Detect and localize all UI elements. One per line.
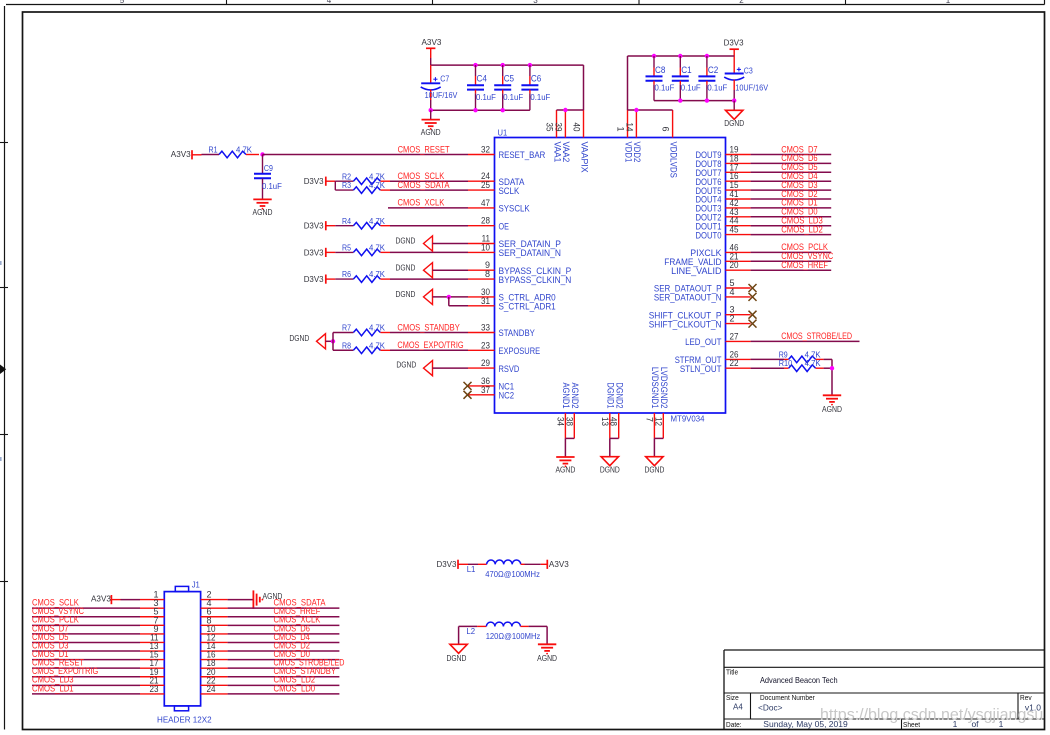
- wire J1 pin 4 CMOS_SDATA: [228, 607, 340, 609]
- ground DGND (at L2): [446, 644, 467, 663]
- svg-text:38: 38: [564, 417, 574, 426]
- capacitor C6 0.1uF: [521, 65, 550, 110]
- wire pin 26 to R9: [751, 358, 784, 360]
- svg-text:CMOS_XCLK: CMOS_XCLK: [398, 198, 445, 208]
- svg-text:SER_DATAIN_N: SER_DATAIN_N: [499, 248, 561, 258]
- svg-text:4.7K: 4.7K: [369, 172, 386, 181]
- svg-text:1: 1: [616, 126, 626, 131]
- ground AGND (at J1 pin 2): [253, 590, 282, 608]
- resistor R8 4.7K: [342, 341, 390, 353]
- svg-text:10UF/16V: 10UF/16V: [425, 91, 459, 100]
- U1 top power pins VAA1 VAA2 VAAPIX VDD1 VDD2 VDDLVDS: [545, 110, 679, 178]
- U1 right pins with numbers: [649, 145, 751, 374]
- svg-text:6: 6: [661, 126, 671, 131]
- svg-text:33: 33: [481, 323, 490, 333]
- svg-text:DGND2: DGND2: [615, 383, 625, 409]
- power A3V3 (top): [422, 37, 442, 65]
- svg-text:47: 47: [481, 198, 490, 208]
- no-connect pin 2: [749, 320, 757, 328]
- wire J1 pin 8 CMOS_XCLK: [228, 624, 340, 626]
- svg-text:MT9V034: MT9V034: [671, 413, 705, 423]
- svg-text:RESET_BAR: RESET_BAR: [499, 150, 546, 160]
- wire AGND rail (left decoupling): [431, 109, 530, 111]
- capacitor C5 0.1uF: [494, 65, 523, 110]
- resistor R4 4.7K: [342, 217, 390, 229]
- svg-text:VDD1: VDD1: [623, 142, 633, 163]
- wire R6 to pin 8: [390, 278, 468, 280]
- svg-text:C8: C8: [655, 65, 665, 75]
- node R9-R10 junction: [830, 366, 834, 370]
- op IC U1 MT9V034 body: [495, 127, 726, 423]
- svg-text:A3V3: A3V3: [422, 37, 442, 47]
- svg-text:8: 8: [485, 269, 490, 279]
- wire DGND to R7 R8: [333, 333, 353, 351]
- svg-text:45: 45: [730, 225, 739, 235]
- no-connect NC1 pin 36: [464, 382, 472, 390]
- capacitor C4 0.1uF: [467, 65, 496, 110]
- wire CMOS_D6: [751, 162, 832, 164]
- svg-text:13: 13: [600, 417, 610, 426]
- wire CMOS_D1: [751, 207, 832, 209]
- svg-text:R10: R10: [779, 359, 793, 368]
- U1 left pins with numbers: [468, 145, 571, 401]
- wire VDD pin tops: [628, 109, 673, 111]
- ground DGND (U1 bottom digital): [600, 457, 620, 475]
- wire LVDSGND1 LVDSGND2 to ground: [654, 438, 663, 456]
- svg-text:U1: U1: [498, 127, 508, 137]
- svg-text:0.1uF: 0.1uF: [681, 84, 701, 93]
- svg-text:SYSCLK: SYSCLK: [499, 204, 530, 214]
- svg-text:R3: R3: [342, 181, 351, 190]
- svg-text:L2: L2: [466, 627, 475, 636]
- svg-text:DGND: DGND: [724, 118, 744, 128]
- svg-text:Rev: Rev: [1020, 693, 1032, 702]
- node DGND rail junctions: [678, 98, 736, 102]
- svg-text:4.7K: 4.7K: [805, 359, 822, 368]
- svg-text:0.1uF: 0.1uF: [530, 93, 550, 102]
- connector J1 HEADER 12X2 body: [157, 580, 212, 724]
- svg-text:R4: R4: [342, 217, 352, 226]
- svg-text:HEADER 12X2: HEADER 12X2: [157, 714, 212, 724]
- wire J1 pin 2 to AGND: [228, 599, 254, 601]
- node VDD junction: [634, 108, 638, 112]
- svg-text:D3V3: D3V3: [437, 559, 457, 569]
- no-connect pin 5: [749, 284, 757, 292]
- wire J1 pin 24 CMOS_LD0: [228, 693, 340, 695]
- svg-text:CMOS_LD1: CMOS_LD1: [32, 683, 74, 693]
- ground AGND (at R9 R10): [822, 395, 842, 414]
- node S_CTRL junction: [447, 295, 451, 299]
- ground AGND (U1 bottom): [555, 457, 575, 475]
- wire R4 to pin 28: [390, 225, 468, 227]
- svg-text:1: 1: [946, 0, 951, 5]
- resistor R5 4.7K: [342, 244, 390, 256]
- wire J1 pin 16 CMOS_D0: [228, 659, 340, 661]
- svg-text:https://blog.csdn.net/ysgjiang: https://blog.csdn.net/ysgjiangsu: [820, 707, 1043, 724]
- wire CMOS_D2: [751, 198, 832, 200]
- svg-text:R6: R6: [342, 270, 351, 279]
- svg-text:48: 48: [609, 417, 619, 426]
- wire DGND to pin 30: [433, 296, 469, 298]
- svg-text:40: 40: [572, 123, 582, 132]
- svg-text:4.7K: 4.7K: [369, 244, 386, 253]
- wire L2 to AGND: [529, 626, 548, 644]
- wire J1 pin 11 CMOS_D5: [32, 641, 140, 643]
- svg-text:CMOS_SDATA: CMOS_SDATA: [398, 180, 450, 190]
- svg-text:C5: C5: [504, 74, 514, 84]
- wire AGND1 AGND2 to ground: [565, 438, 574, 457]
- svg-text:J1: J1: [192, 580, 200, 589]
- svg-text:L1: L1: [467, 565, 476, 574]
- wire J1 pin 7 CMOS_PCLK: [32, 624, 140, 626]
- svg-text:A3V3: A3V3: [91, 594, 111, 604]
- svg-text:Size: Size: [726, 693, 739, 702]
- svg-text:BYPASS_CLKIN_N: BYPASS_CLKIN_N: [499, 275, 572, 285]
- wire J1 pin 6 CMOS_HREF: [228, 616, 340, 618]
- wire DGND to pin 9: [433, 269, 469, 271]
- svg-text:4.7K: 4.7K: [369, 270, 386, 279]
- svg-text:VAAPIX: VAAPIX: [579, 142, 589, 173]
- svg-text:23: 23: [150, 684, 159, 694]
- wire CMOS_HREF: [751, 269, 832, 271]
- J1 pin stubs with numbers: [140, 590, 228, 694]
- wire CMOS_EXPO/TRIG to pin 23: [390, 349, 468, 351]
- power D3V3 (at R6): [304, 274, 354, 284]
- svg-text:VDDLVDS: VDDLVDS: [668, 142, 678, 178]
- svg-text:STLN_OUT: STLN_OUT: [680, 364, 722, 374]
- resistor R9 4.7K: [779, 350, 824, 362]
- svg-text:12: 12: [653, 417, 663, 426]
- svg-text:DGND: DGND: [396, 236, 416, 246]
- capacitor C8 0.1uF: [646, 56, 675, 101]
- svg-text:STANDBY: STANDBY: [499, 328, 535, 338]
- no-connect pin 4: [749, 293, 757, 301]
- svg-text:CMOS_STROBE/LED: CMOS_STROBE/LED: [781, 331, 852, 341]
- svg-text:DGND: DGND: [396, 262, 416, 272]
- ground AGND (under C9): [253, 199, 273, 217]
- svg-text:R9: R9: [779, 350, 788, 359]
- node R1-C9 junction: [260, 152, 264, 156]
- wire DGND to pin 11: [433, 243, 469, 245]
- svg-text:C2: C2: [708, 65, 718, 75]
- svg-text:VAA2: VAA2: [561, 142, 571, 163]
- svg-text:AGND2: AGND2: [570, 383, 580, 409]
- svg-text:AGND1: AGND1: [561, 383, 571, 409]
- wire CMOS_STROBE/LED: [751, 340, 860, 342]
- svg-text:DGND: DGND: [446, 653, 466, 663]
- ground DGND (U1 bottom LVDS): [644, 457, 664, 475]
- svg-text:4: 4: [327, 0, 332, 5]
- power D3V3 (at R4): [304, 221, 354, 231]
- wire DGND to pin 29: [433, 367, 469, 369]
- wire CMOS_D4: [751, 180, 832, 182]
- svg-text:AGND: AGND: [537, 653, 557, 663]
- wire J1 pin 10 CMOS_D6: [228, 633, 340, 635]
- svg-text:4.7K: 4.7K: [369, 341, 386, 350]
- wire CMOS_D0: [751, 216, 832, 218]
- svg-text:5: 5: [120, 0, 125, 5]
- node AGND rail junctions: [429, 108, 505, 112]
- svg-text:C1: C1: [681, 65, 691, 75]
- ground AGND (under C7): [421, 110, 441, 137]
- wire CMOS_PCLK: [751, 251, 832, 253]
- power D3V3 (at L1): [437, 559, 469, 569]
- svg-text:C3: C3: [744, 66, 753, 75]
- svg-text:34: 34: [555, 417, 565, 426]
- wire CMOS_D3: [751, 189, 832, 191]
- node A3V3 rail junctions: [473, 63, 532, 67]
- svg-text:DGND: DGND: [396, 359, 416, 369]
- wire A3V3 rail: [431, 65, 584, 110]
- svg-text:CMOS_LD2: CMOS_LD2: [781, 224, 823, 234]
- svg-text:29: 29: [481, 358, 490, 368]
- svg-text:Advanced Beacon Tech: Advanced Beacon Tech: [760, 675, 838, 685]
- svg-text:C7: C7: [440, 74, 449, 83]
- wire CMOS_D5: [751, 171, 832, 173]
- wire CMOS_SDATA to pin 25: [390, 189, 468, 191]
- wire CMOS_VSYNC: [751, 260, 832, 262]
- wire J1 pin 20 CMOS_STANDBY: [228, 676, 340, 678]
- svg-text:NC2: NC2: [499, 391, 515, 401]
- wire pin 22 to R10: [751, 367, 784, 369]
- ground AGND (at L2): [537, 644, 557, 663]
- capacitor C3 10UF/16V: [724, 66, 769, 100]
- svg-text:Date:: Date:: [726, 720, 742, 729]
- svg-text:OE: OE: [499, 221, 509, 231]
- svg-text:22: 22: [730, 358, 739, 368]
- svg-text:R7: R7: [342, 324, 351, 333]
- svg-text:SER_DATAOUT_N: SER_DATAOUT_N: [654, 293, 722, 303]
- svg-text:R2: R2: [342, 172, 351, 181]
- svg-text:A3V3: A3V3: [549, 559, 569, 569]
- resistor R10 4.7K: [779, 359, 824, 371]
- svg-text:4.7K: 4.7K: [369, 181, 386, 190]
- resistor R2 4.7K: [342, 172, 390, 184]
- svg-text:VAA1: VAA1: [552, 142, 562, 163]
- svg-text:7: 7: [644, 417, 654, 422]
- power A3V3 (at J1 pin 1): [91, 594, 140, 605]
- wire J1 pin 21 CMOS_LD3: [32, 684, 140, 686]
- wire CMOS_STANDBY to pin 33: [390, 332, 468, 334]
- svg-text:D3V3: D3V3: [304, 274, 324, 284]
- svg-text:Document Number: Document Number: [760, 693, 815, 702]
- svg-text:R5: R5: [342, 244, 352, 253]
- no-connect NC2 pin 37: [464, 391, 472, 399]
- resistor R3 4.7K: [342, 181, 390, 193]
- wire J1 pin 13 CMOS_D3: [32, 650, 140, 652]
- svg-text:C4: C4: [477, 74, 487, 84]
- svg-text:10UF/16V: 10UF/16V: [735, 84, 769, 93]
- svg-text:AGND: AGND: [822, 404, 842, 414]
- svg-text:LVDSGND1: LVDSGND1: [650, 367, 660, 409]
- capacitor C2 0.1uF: [698, 56, 727, 101]
- wire D3V3 rail: [628, 56, 735, 110]
- capacitor C7 10UF/16V: [421, 65, 458, 110]
- wire R5 to pin 10: [390, 251, 468, 253]
- power D3V3 (at R2 R3): [304, 176, 354, 190]
- svg-text:28: 28: [481, 216, 490, 226]
- svg-text:C9: C9: [264, 164, 273, 173]
- svg-text:R1: R1: [209, 146, 218, 155]
- ground DGND (under C3): [724, 101, 744, 128]
- svg-text:CMOS_LD0: CMOS_LD0: [274, 683, 316, 693]
- wire J1 pin 15 CMOS_D1: [32, 659, 140, 661]
- wire DGND1 DGND2 to ground: [610, 438, 619, 456]
- svg-text:0.1uF: 0.1uF: [262, 182, 282, 191]
- svg-text:DGND: DGND: [289, 333, 309, 343]
- svg-text:10: 10: [481, 242, 490, 252]
- svg-text:4.7K: 4.7K: [805, 350, 822, 359]
- svg-text:31: 31: [481, 296, 490, 306]
- wire to pin 31: [449, 297, 468, 306]
- wire J1 pin 17 CMOS_RESET: [32, 667, 140, 669]
- svg-text:RSVD: RSVD: [499, 364, 520, 374]
- svg-text:0.1uF: 0.1uF: [707, 84, 727, 93]
- svg-text:VDD2: VDD2: [632, 142, 642, 163]
- resistor R1 4.7K: [202, 146, 260, 158]
- ground DGND arrow (pin 9): [396, 262, 433, 277]
- svg-text:D3V3: D3V3: [304, 221, 324, 231]
- wire J1 pin 5 CMOS_VSYNC: [32, 616, 140, 618]
- svg-text:23: 23: [481, 340, 490, 350]
- svg-text:24: 24: [207, 684, 216, 694]
- wire CMOS_LD2: [751, 234, 832, 236]
- wire J1 pin 14 CMOS_D2: [228, 650, 340, 652]
- svg-text:LINE_VALID: LINE_VALID: [671, 266, 722, 276]
- svg-text:0.1uF: 0.1uF: [655, 84, 675, 93]
- svg-text:0.1uF: 0.1uF: [476, 93, 496, 102]
- svg-text:CMOS_EXPO/TRIG: CMOS_EXPO/TRIG: [397, 340, 463, 350]
- svg-text:DGND: DGND: [644, 465, 664, 475]
- svg-text:3: 3: [533, 0, 538, 5]
- svg-text:4.7K: 4.7K: [369, 217, 386, 226]
- inductor L1 470ohm: [467, 560, 548, 579]
- svg-text:C6: C6: [531, 74, 541, 84]
- svg-text:32: 32: [481, 145, 490, 155]
- wire CMOS_D7: [751, 154, 832, 156]
- node D3V3 rail junctions: [652, 54, 709, 58]
- svg-text:LED_OUT: LED_OUT: [685, 337, 722, 347]
- svg-text:D3V3: D3V3: [724, 38, 744, 48]
- svg-text:EXPOSURE: EXPOSURE: [499, 346, 541, 356]
- svg-text:D3V3: D3V3: [304, 176, 324, 186]
- power D3V3 (top): [724, 38, 744, 74]
- svg-text:AGND: AGND: [421, 127, 441, 137]
- svg-text:2: 2: [739, 0, 744, 5]
- svg-text:Title: Title: [726, 667, 738, 676]
- wire VAA pin tops: [557, 109, 584, 111]
- node VAA junction: [563, 108, 567, 112]
- svg-text:20: 20: [730, 260, 739, 270]
- svg-text:CMOS_RESET: CMOS_RESET: [398, 144, 450, 154]
- ground DGND arrow (at R7 R8): [289, 333, 333, 349]
- ground DGND arrow (pin 29): [396, 359, 432, 375]
- no-connect pin 3: [749, 311, 757, 319]
- wire CMOS_LD3: [751, 225, 832, 227]
- wire J1 pin 23 CMOS_LD1: [32, 693, 140, 695]
- svg-text:S_CTRL_ADR1: S_CTRL_ADR1: [499, 302, 556, 312]
- power A3V3 (at R1): [171, 149, 202, 159]
- svg-text:A4: A4: [733, 702, 743, 712]
- node R7-R8 junction: [331, 339, 335, 343]
- svg-text:DOUT0: DOUT0: [696, 230, 722, 240]
- capacitor C1 0.1uF: [672, 56, 701, 101]
- svg-text:14: 14: [624, 123, 634, 132]
- svg-text:4.7K: 4.7K: [369, 324, 386, 333]
- svg-text:470Ω@100MHz: 470Ω@100MHz: [485, 569, 540, 579]
- svg-text:0.1uF: 0.1uF: [503, 93, 523, 102]
- svg-text:2: 2: [730, 314, 735, 324]
- wire R9 R10 to AGND: [824, 359, 832, 395]
- svg-text:CMOS_HREF: CMOS_HREF: [781, 260, 828, 270]
- svg-text:LVDSGND2: LVDSGND2: [659, 367, 669, 409]
- ground DGND arrow (pins 30 31): [396, 289, 433, 304]
- wire CMOS_RESET to pin 32: [263, 154, 469, 156]
- svg-text:37: 37: [481, 385, 490, 395]
- wire J1 pin 9 CMOS_D7: [32, 633, 140, 635]
- svg-text:35: 35: [545, 123, 555, 132]
- svg-text:AGND: AGND: [253, 207, 273, 217]
- svg-text:A3V3: A3V3: [171, 149, 191, 159]
- wire DGND rail (right decoupling): [654, 100, 734, 102]
- svg-text:120Ω@100MHz: 120Ω@100MHz: [486, 631, 541, 641]
- resistor R7 4.7K: [342, 324, 390, 336]
- wire J1 pin 3 CMOS_SCLK: [32, 607, 140, 609]
- svg-text:SHIFT_CLKOUT_N: SHIFT_CLKOUT_N: [649, 319, 722, 329]
- svg-text:CMOS_STANDBY: CMOS_STANDBY: [397, 322, 459, 332]
- power A3V3 (at L1): [547, 559, 569, 569]
- wire J1 pin 18 CMOS_STROBE/LED: [228, 667, 340, 669]
- wire J1 pin 22 CMOS_LD2: [228, 684, 340, 686]
- wire DGND to L2: [459, 626, 478, 644]
- svg-text:27: 27: [730, 331, 739, 341]
- svg-text:AGND: AGND: [555, 465, 575, 475]
- wire J1 pin 19 CMOS_EXPO/TRIG: [32, 676, 140, 678]
- svg-text:DGND: DGND: [600, 465, 620, 475]
- inductor L2 120ohm: [466, 622, 540, 641]
- svg-text:R8: R8: [342, 341, 351, 350]
- svg-text:25: 25: [481, 180, 490, 190]
- svg-text:<Doc>: <Doc>: [758, 703, 783, 713]
- wire CMOS_XCLK to pin 47: [388, 207, 468, 209]
- svg-text:SCLK: SCLK: [499, 186, 520, 196]
- svg-text:D3V3: D3V3: [304, 247, 324, 257]
- svg-text:DGND1: DGND1: [606, 383, 616, 409]
- U1 bottom ground pins AGND1 AGND2 DGND1 DGND2 LVDSGND1 LVDSGND2: [555, 367, 669, 439]
- svg-text:DGND: DGND: [396, 289, 416, 299]
- svg-text:4.7K: 4.7K: [236, 146, 253, 155]
- svg-text:39: 39: [553, 123, 563, 132]
- capacitor C9 0.1uF: [254, 155, 282, 200]
- resistor R6 4.7K: [342, 270, 390, 282]
- wire CMOS_SCLK to pin 24: [390, 180, 468, 182]
- svg-text:4: 4: [730, 287, 735, 297]
- ground DGND arrow (pin 11): [396, 236, 433, 251]
- power D3V3 (at R5): [304, 247, 354, 257]
- wire J1 pin 12 CMOS_D4: [228, 641, 340, 643]
